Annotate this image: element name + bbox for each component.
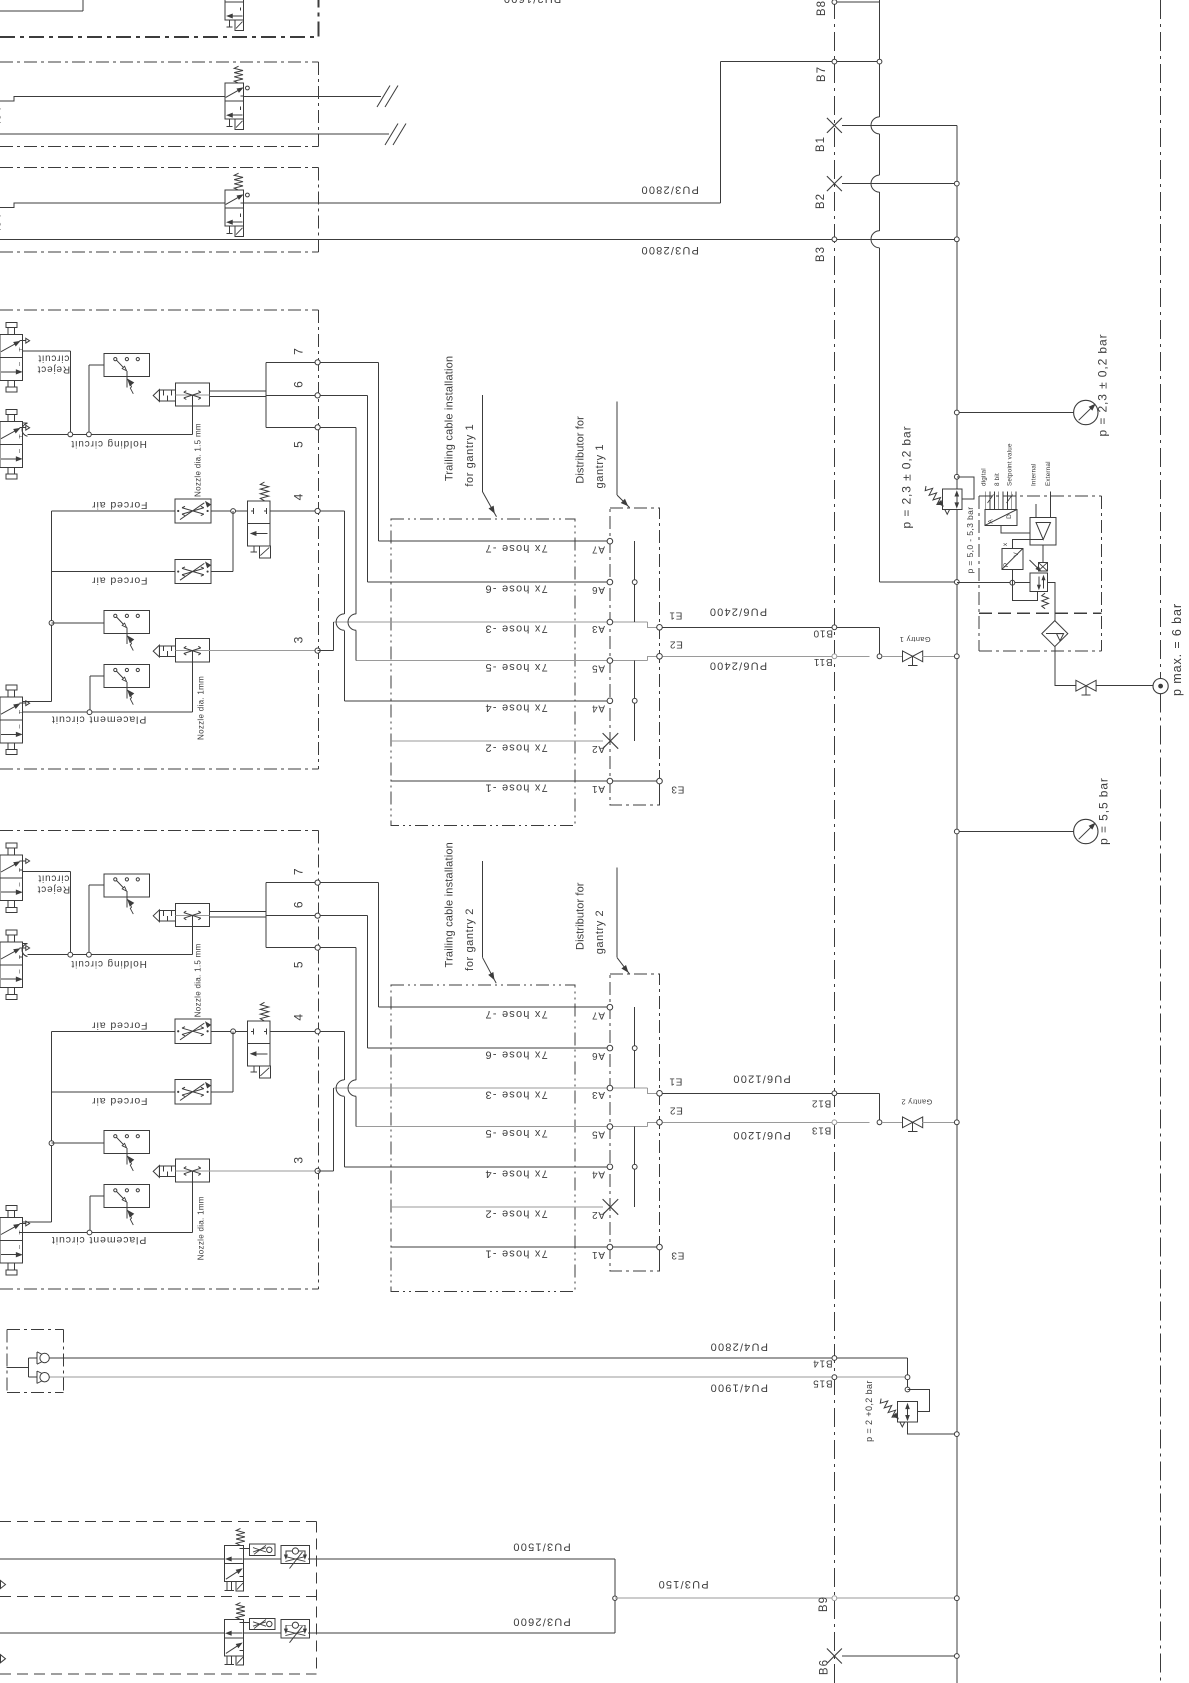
svg-text:p = 5,0 - 5,3 bar: p = 5,0 - 5,3 bar xyxy=(965,506,975,573)
svg-text:A3: A3 xyxy=(591,623,605,634)
svg-text:circuit: circuit xyxy=(38,352,70,363)
svg-text:B3: B3 xyxy=(815,246,827,262)
svg-text:A6: A6 xyxy=(591,584,605,595)
svg-text:E2: E2 xyxy=(669,639,683,650)
svg-text:6: 6 xyxy=(292,380,306,388)
svg-text:E1: E1 xyxy=(669,610,683,621)
svg-text:Placement circuit: Placement circuit xyxy=(51,714,146,726)
svg-text:E3: E3 xyxy=(671,784,685,795)
svg-text:5: 5 xyxy=(292,440,306,448)
svg-text:PU3/2600: PU3/2600 xyxy=(512,1616,571,1628)
svg-text:PU2/1600: PU2/1600 xyxy=(503,0,562,5)
svg-text:7x hose -7: 7x hose -7 xyxy=(484,542,547,554)
svg-text:p max. = 6 bar: p max. = 6 bar xyxy=(1170,603,1184,696)
svg-text:p = 2,3 ± 0,2 bar: p = 2,3 ± 0,2 bar xyxy=(1096,334,1110,437)
svg-text:PU6/2400: PU6/2400 xyxy=(709,660,768,672)
svg-text:B7: B7 xyxy=(816,66,828,82)
svg-text:B8: B8 xyxy=(816,0,828,16)
svg-text:A2: A2 xyxy=(591,743,605,754)
svg-text:7x hose -3: 7x hose -3 xyxy=(484,623,547,635)
svg-text:PU4/1900: PU4/1900 xyxy=(709,1382,768,1394)
svg-text:7x hose -2: 7x hose -2 xyxy=(484,742,547,754)
svg-text:for gantry 1: for gantry 1 xyxy=(464,424,476,487)
svg-text:PU4/2800: PU4/2800 xyxy=(709,1341,768,1353)
svg-text:B2: B2 xyxy=(815,193,827,209)
svg-text:A: A xyxy=(988,519,995,524)
svg-text:A7: A7 xyxy=(591,543,605,554)
svg-text:Trailing cable installation: Trailing cable installation xyxy=(444,356,456,481)
svg-text:40 l: 40 l xyxy=(0,214,4,234)
svg-text:PU3/1500: PU3/1500 xyxy=(512,1541,571,1553)
svg-text:V: V xyxy=(1013,552,1020,557)
svg-text:A5: A5 xyxy=(591,663,605,674)
svg-text:for gantry 2: for gantry 2 xyxy=(464,908,476,971)
svg-text:Gantry 2: Gantry 2 xyxy=(901,1098,932,1107)
svg-text:A1: A1 xyxy=(591,783,605,794)
svg-text:7x hose -6: 7x hose -6 xyxy=(484,583,547,595)
svg-text:B11: B11 xyxy=(813,656,832,667)
svg-text:Nozzle dia. 1mm: Nozzle dia. 1mm xyxy=(197,676,206,740)
svg-text:7x hose -5: 7x hose -5 xyxy=(484,661,547,673)
svg-text:Nozzle dia. 1.5 mm: Nozzle dia. 1.5 mm xyxy=(194,423,203,497)
svg-text:PU6/1200: PU6/1200 xyxy=(732,1129,791,1141)
svg-text:D: D xyxy=(1006,514,1013,519)
svg-text:Gantry 1: Gantry 1 xyxy=(899,635,930,644)
svg-text:7x hose -1: 7x hose -1 xyxy=(484,782,547,794)
svg-text:p = 5,5 bar: p = 5,5 bar xyxy=(1097,777,1111,845)
svg-text:PU3/2800: PU3/2800 xyxy=(640,244,699,256)
svg-text:B13: B13 xyxy=(811,1125,831,1136)
svg-text:Internal: Internal xyxy=(1031,463,1038,486)
svg-text:40 l: 40 l xyxy=(0,107,4,127)
svg-text:gantry 2: gantry 2 xyxy=(594,910,606,955)
svg-text:B6: B6 xyxy=(819,1659,831,1675)
svg-text:Reject: Reject xyxy=(37,363,70,374)
svg-text:Setpoint value: Setpoint value xyxy=(1007,443,1014,486)
svg-text:gantry 1: gantry 1 xyxy=(594,444,606,489)
svg-text:B9: B9 xyxy=(818,1596,830,1612)
svg-text:A4: A4 xyxy=(591,703,605,714)
svg-text:B1: B1 xyxy=(815,136,827,152)
svg-text:Forced air: Forced air xyxy=(91,499,147,511)
svg-text:B10: B10 xyxy=(813,628,833,639)
svg-text:PU3/2800: PU3/2800 xyxy=(640,184,699,196)
svg-text:PU6/1200: PU6/1200 xyxy=(732,1072,791,1084)
svg-text:PU3/150: PU3/150 xyxy=(657,1578,708,1590)
svg-text:P: P xyxy=(1003,563,1010,567)
svg-text:4: 4 xyxy=(292,493,306,501)
svg-text:Distributor for: Distributor for xyxy=(575,882,587,950)
svg-text:Forced air: Forced air xyxy=(91,575,147,587)
svg-text:3: 3 xyxy=(292,636,306,644)
svg-text:PU6/2400: PU6/2400 xyxy=(709,605,768,617)
svg-text:Holding circuit: Holding circuit xyxy=(71,438,147,449)
svg-text:p = 2,3 ± 0,2 bar: p = 2,3 ± 0,2 bar xyxy=(900,426,914,529)
svg-text:7: 7 xyxy=(292,347,306,355)
svg-text:7x hose -4: 7x hose -4 xyxy=(484,701,547,713)
svg-text:8 bit: 8 bit xyxy=(994,473,1001,486)
svg-text:B15: B15 xyxy=(812,1378,832,1389)
svg-text:Trailing cable installation: Trailing cable installation xyxy=(444,842,456,967)
svg-text:B14: B14 xyxy=(812,1358,832,1369)
svg-text:digital: digital xyxy=(980,468,987,486)
svg-text:Distributor for: Distributor for xyxy=(575,416,587,484)
svg-text:B12: B12 xyxy=(811,1098,831,1109)
svg-text:p = 2 +0,2 bar: p = 2 +0,2 bar xyxy=(864,1380,874,1442)
svg-text:External: External xyxy=(1045,461,1052,486)
